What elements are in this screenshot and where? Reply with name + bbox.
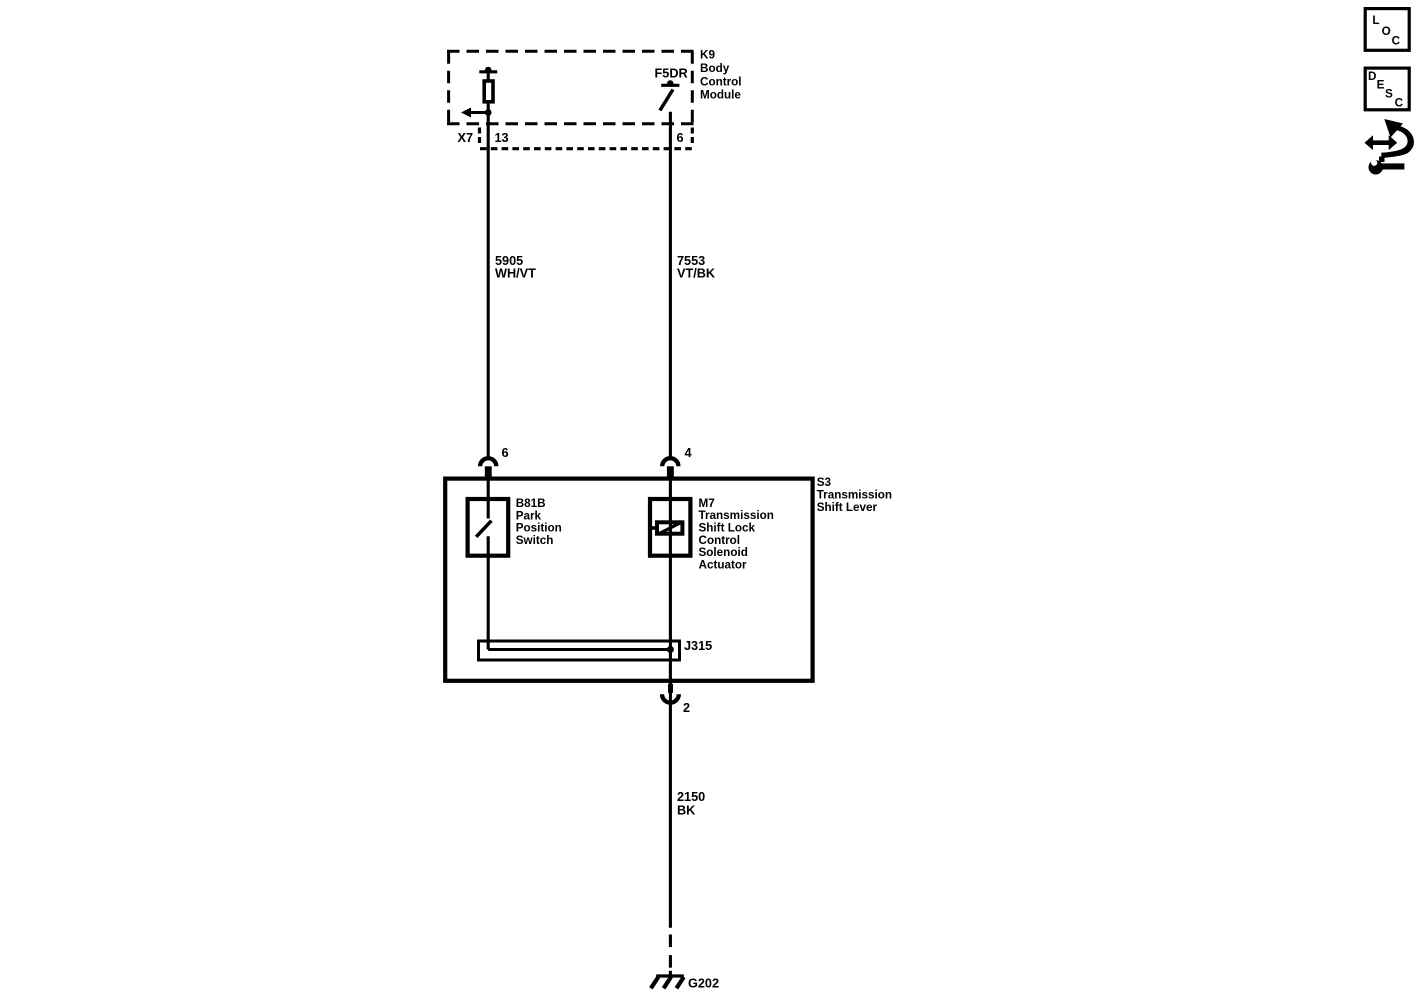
svg-text:Transmission: Transmission xyxy=(817,489,892,502)
wire label 7553 VT/BK xyxy=(677,254,716,281)
svg-text:E: E xyxy=(1377,79,1385,92)
svg-text:F5DR: F5DR xyxy=(655,67,688,81)
LOC button xyxy=(1365,9,1409,51)
svg-text:D: D xyxy=(1368,70,1376,83)
circuit breaker F5DR xyxy=(660,80,680,110)
connector terminal 6 at S3 xyxy=(480,458,496,477)
wire 7553 VT/BK xyxy=(669,112,672,459)
svg-text:Body: Body xyxy=(700,62,730,75)
wire 2150 BK xyxy=(669,702,672,975)
B81B label xyxy=(516,497,562,547)
svg-text:2150: 2150 xyxy=(677,790,705,804)
svg-text:Shift Lock: Shift Lock xyxy=(699,522,756,535)
svg-text:Control: Control xyxy=(699,534,741,547)
svg-text:2: 2 xyxy=(683,701,690,715)
svg-text:VT/BK: VT/BK xyxy=(677,267,716,281)
svg-text:O: O xyxy=(1382,25,1391,38)
connector terminal 2 xyxy=(662,684,679,703)
svg-text:M7: M7 xyxy=(699,497,715,510)
svg-text:L: L xyxy=(1372,14,1379,27)
S3 label xyxy=(817,476,892,514)
svg-text:B81B: B81B xyxy=(516,497,546,510)
M7 label xyxy=(699,497,774,572)
K9 module label xyxy=(700,49,742,102)
svg-text:G202: G202 xyxy=(688,977,719,991)
svg-text:Shift Lever: Shift Lever xyxy=(817,501,878,514)
svg-text:6: 6 xyxy=(677,131,684,145)
DESC button xyxy=(1365,68,1409,110)
svg-text:S3: S3 xyxy=(817,476,832,489)
svg-text:Control: Control xyxy=(700,75,742,88)
svg-text:C: C xyxy=(1392,35,1401,48)
signal direction arrow xyxy=(461,108,492,118)
svg-text:BK: BK xyxy=(677,803,696,817)
svg-text:Solenoid: Solenoid xyxy=(699,546,748,559)
svg-text:K9: K9 xyxy=(700,49,715,62)
svg-text:Switch: Switch xyxy=(516,534,554,547)
solenoid M7 xyxy=(650,477,690,703)
wire 5905 WH/VT xyxy=(487,113,490,459)
svg-text:S: S xyxy=(1385,88,1393,101)
svg-text:Actuator: Actuator xyxy=(699,558,748,571)
wire label 2150 BK xyxy=(677,790,705,817)
switch B81B xyxy=(468,477,509,650)
svg-text:J315: J315 xyxy=(684,639,712,653)
resistor (BCM internal) xyxy=(479,67,497,113)
svg-text:Module: Module xyxy=(700,89,741,102)
svg-text:Position: Position xyxy=(516,522,562,535)
connector terminal 4 at S3 xyxy=(662,458,678,477)
connector X7 dashed outline xyxy=(480,128,694,149)
wire label 5905 WH/VT xyxy=(495,254,536,281)
splice pack J315 xyxy=(479,641,680,660)
svg-text:X7: X7 xyxy=(458,131,474,145)
svg-text:Transmission: Transmission xyxy=(699,509,774,522)
svg-text:Park: Park xyxy=(516,509,542,522)
fastener adjust icon xyxy=(1365,119,1414,175)
svg-text:13: 13 xyxy=(495,131,509,145)
svg-text:4: 4 xyxy=(685,446,692,460)
ground G202 xyxy=(651,976,684,988)
svg-text:WH/VT: WH/VT xyxy=(495,267,536,281)
S3 Transmission Shift Lever box xyxy=(445,479,812,681)
svg-text:6: 6 xyxy=(502,446,509,460)
K9 Body Control Module dashed box xyxy=(447,51,694,124)
svg-text:C: C xyxy=(1395,97,1404,110)
